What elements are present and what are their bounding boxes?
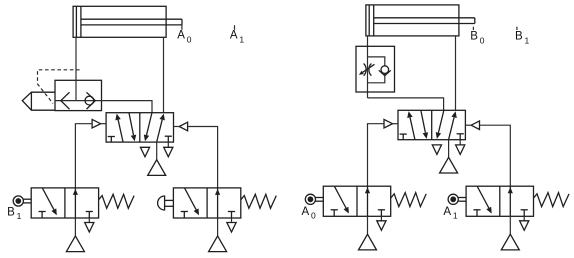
wire valve B1 output to V1 left pilot port 14 bbox=[75, 124, 92, 188]
3/2 valve A0 left square blocked port 1 bbox=[331, 209, 338, 211]
5/2 valve V1 right square flow path 4-5 bbox=[147, 113, 152, 135]
quick exhaust valve Z1 check seat bbox=[87, 92, 96, 109]
wire cylinder B rod-end port to valve V2 port 2 bbox=[455, 36, 457, 110]
3/2 valve B1 roller limit-switch actuator bbox=[13, 196, 23, 206]
silencer on quick exhaust valve bbox=[22, 92, 55, 110]
3/2 valve A0 exhaust port 3 silencer bbox=[380, 216, 382, 221]
5/2 valve V2 left square flow path 1-4 bbox=[410, 117, 415, 139]
3/2 valve A1 right square blocked port 3 bbox=[521, 209, 528, 211]
5/2 valve V1 supply port 1 pressure source bbox=[156, 142, 158, 160]
quick exhaust valve Z1 internal passage bbox=[75, 80, 77, 100]
cylinder B rod bbox=[374, 17, 475, 19]
flow control valve D1 throttle restriction bbox=[364, 64, 366, 76]
5/2 valve V1 right square blocked port 3 bbox=[165, 135, 172, 137]
3/2 valve A0 supply port 1 pressure source bbox=[367, 216, 369, 234]
cylinder B body bbox=[366, 5, 459, 36]
flow control valve D1 adjustment arrow bbox=[363, 64, 375, 72]
one-way flow control valve D1 body bbox=[356, 46, 395, 92]
svg-text:0: 0 bbox=[311, 211, 316, 221]
3/2 valve A0 return spring bbox=[391, 193, 427, 207]
svg-text:1: 1 bbox=[17, 211, 22, 221]
position tick B1 bbox=[516, 27, 518, 30]
3/2-way valve B1 body bbox=[31, 188, 98, 218]
5/2-way valve V2 body bbox=[398, 110, 465, 139]
position tick A1 bbox=[234, 25, 236, 30]
3/2 valve B1 left square flow path 2-3 bbox=[42, 188, 54, 210]
cylinder B piston bbox=[368, 5, 370, 36]
3/2 valve S2 right square flow path 1-2 bbox=[217, 188, 219, 218]
svg-text:A: A bbox=[230, 30, 238, 42]
svg-text:0: 0 bbox=[187, 34, 192, 44]
3/2 valve S2 exhaust port 3 silencer bbox=[231, 218, 233, 223]
wire valve A0 output to V2 left pilot port 14 bbox=[368, 124, 385, 187]
quick exhaust valve Z1 body bbox=[55, 80, 102, 110]
3/2-way valve S2 body bbox=[173, 188, 240, 218]
wire quick exhaust valve output to valve V1 port 4 bbox=[102, 101, 153, 113]
5/2 valve V2 left square blocked port 5 bbox=[400, 133, 407, 135]
5/2 valve V2 right square flow path 1-2 bbox=[449, 117, 455, 139]
svg-text:1: 1 bbox=[453, 211, 458, 221]
wire cylinder A cap-end port to quick exhaust valve bbox=[75, 37, 77, 80]
cylinder A rod bbox=[81, 18, 182, 20]
3/2 valve S2 supply port 1 pressure source bbox=[217, 218, 219, 236]
3/2 valve A0 right square blocked port 3 bbox=[378, 209, 385, 211]
5/2 valve V2 supply port 1 pressure source bbox=[448, 140, 450, 158]
5/2 valve V2 left pilot bbox=[384, 119, 393, 128]
3/2 valve S2 left square flow path 2-3 bbox=[185, 188, 197, 210]
3/2 valve S2 return spring bbox=[241, 194, 276, 208]
svg-text:1: 1 bbox=[239, 34, 244, 44]
svg-text:B: B bbox=[515, 31, 523, 43]
5/2 valve V1 left pilot bbox=[92, 119, 101, 128]
wire flow control valve to valve V2 port 4 bbox=[368, 98, 444, 110]
5/2 valve V2 right square flow path 4-5 bbox=[438, 111, 443, 133]
5/2 valve V1 left square blocked port 5 bbox=[108, 136, 115, 138]
5/2 valve V1 exhaust port 3 silencer bbox=[167, 142, 169, 147]
quick exhaust valve Z1 exhaust arrow bbox=[61, 92, 70, 109]
3/2 valve A0 roller limit-switch actuator bbox=[305, 194, 315, 204]
position tick A0 at rod end bbox=[181, 25, 183, 30]
3/2 valve B1 return spring bbox=[99, 194, 135, 208]
3/2 valve B1 exhaust port 3 silencer bbox=[88, 218, 90, 223]
5/2 valve V2 right square blocked port 3 bbox=[457, 133, 464, 135]
5/2 valve V1 exhaust port 5 silencer bbox=[140, 147, 149, 157]
3/2 valve A1 return spring bbox=[534, 193, 570, 207]
svg-text:B: B bbox=[7, 206, 15, 218]
3/2 valve S2 right square blocked port 3 bbox=[228, 211, 235, 213]
cylinder A body bbox=[73, 6, 166, 37]
3/2 valve B1 right square blocked port 3 bbox=[86, 211, 93, 213]
3/2 valve B1 supply port 1 pressure source bbox=[74, 218, 76, 236]
3/2 valve S2 pushbutton actuator bbox=[158, 196, 165, 210]
svg-text:0: 0 bbox=[480, 36, 485, 46]
svg-text:A: A bbox=[443, 206, 451, 218]
3/2 valve B1 right square flow path 1-2 bbox=[74, 188, 76, 218]
3/2 valve S2 left square blocked port 1 bbox=[181, 211, 188, 213]
3/2 valve A1 left square flow path 2-3 bbox=[477, 186, 489, 208]
5/2 valve V2 exhaust port 3 silencer bbox=[459, 140, 461, 145]
3/2-way valve A0 body bbox=[323, 186, 390, 216]
flow control valve D1 check seat bbox=[379, 70, 391, 75]
flow control valve D1 check ball bbox=[381, 66, 389, 74]
5/2 valve V2 exhaust port 5 silencer bbox=[432, 145, 441, 155]
5/2-way valve V1 body bbox=[106, 113, 173, 142]
5/2 valve V2 left square flow path 2-3 bbox=[421, 111, 426, 133]
wire cylinder B cap-end port into flow control valve bbox=[367, 36, 369, 98]
3/2 valve A1 roller limit-switch actuator bbox=[448, 194, 458, 204]
3/2 valve A1 right square flow path 1-2 bbox=[509, 186, 511, 216]
5/2 valve V1 left square flow path 2-3 bbox=[129, 113, 134, 135]
3/2 valve A1 left square blocked port 1 bbox=[473, 209, 480, 211]
3/2 valve A0 right square flow path 1-2 bbox=[367, 186, 369, 216]
wire valve A1 output to V2 right pilot port 12 bbox=[480, 125, 511, 186]
3/2 valve A1 supply port 1 pressure source bbox=[509, 216, 511, 234]
5/2 valve V1 right pilot bbox=[179, 122, 187, 131]
svg-text:1: 1 bbox=[525, 36, 530, 46]
3/2 valve B1 left square blocked port 1 bbox=[39, 211, 46, 213]
wire valve S2 output to V1 right pilot port 12 bbox=[188, 127, 218, 188]
cylinder A piston bbox=[75, 6, 77, 37]
svg-text:B: B bbox=[470, 31, 478, 43]
5/2 valve V2 right pilot bbox=[471, 121, 479, 130]
position tick B0 at rod end bbox=[472, 27, 474, 30]
3/2 valve A0 left square flow path 2-3 bbox=[335, 186, 347, 208]
flow control valve D1 bypass passage bbox=[368, 57, 385, 83]
5/2 valve V1 right square flow path 1-2 bbox=[157, 120, 163, 142]
3/2 valve A1 exhaust port 3 silencer bbox=[523, 216, 525, 221]
3/2-way valve A1 body bbox=[466, 186, 533, 216]
quick exhaust valve Z1 pilot line (dashed) bbox=[38, 70, 80, 104]
5/2 valve V1 left square flow path 1-4 bbox=[118, 120, 123, 142]
wire cylinder A rod-end port to valve V1 port 2 bbox=[163, 37, 165, 112]
svg-text:A: A bbox=[177, 30, 185, 42]
svg-text:A: A bbox=[302, 206, 310, 218]
quick exhaust valve Z1 check ball bbox=[85, 96, 94, 105]
